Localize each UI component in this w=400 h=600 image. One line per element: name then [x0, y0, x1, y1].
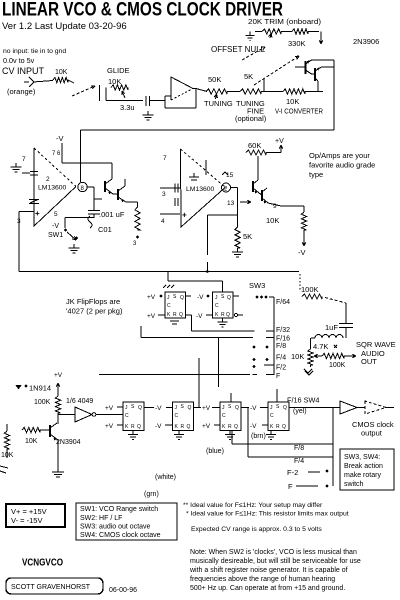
+V labels FF1 — [147, 294, 165, 320]
svg-text:(blue): (blue) — [206, 448, 224, 455]
wire inverter out to FF1 — [96, 414, 123, 416]
wire jack to resistor — [33, 80, 74, 83]
wire U3 output to node — [231, 188, 238, 216]
svg-text:C: C — [222, 413, 226, 419]
U3 pin 1 stub — [205, 160, 207, 175]
(grn) wire label — [144, 491, 159, 498]
wire emitter to ground — [57, 440, 59, 468]
svg-text:Q: Q — [137, 424, 141, 430]
ground below 10K pot — [304, 365, 313, 375]
SW3 stub F/2 — [264, 364, 274, 366]
U2 output pin circle — [78, 182, 87, 192]
svg-text:LINEAR VCO & CMOS CLOCK DRIVER: LINEAR VCO & CMOS CLOCK DRIVER — [2, 0, 283, 21]
resistor R7 330K — [281, 29, 319, 48]
svg-text:SW1: VCO Range switch: SW1: VCO Range switch — [80, 506, 158, 513]
ground below FF2 — [218, 318, 228, 327]
svg-text:SW1: SW1 — [48, 232, 63, 239]
wire Iabc bottom run — [81, 129, 335, 131]
svg-text:+: + — [182, 211, 187, 220]
wire Q6 emitter to 10K — [268, 203, 304, 212]
+V arrow feed — [54, 372, 63, 396]
CV INPUT label — [2, 66, 45, 76]
svg-text:13: 13 — [227, 200, 235, 207]
svg-text:330K: 330K — [288, 39, 306, 48]
dashed pointer from offset null to Q1 — [242, 47, 265, 60]
subtitle version text — [2, 21, 127, 32]
svg-text:VCNGVCO: VCNGVCO — [22, 557, 63, 569]
wire F/4 run — [248, 408, 325, 466]
svg-text:output: output — [361, 429, 383, 438]
svg-text:SW3: SW3 — [249, 281, 265, 290]
node F bottom label — [288, 482, 318, 491]
svg-text:20K TRIM (onboard): 20K TRIM (onboard) — [248, 17, 321, 26]
svg-text:10K: 10K — [291, 352, 304, 361]
svg-text:LM13600: LM13600 — [38, 185, 67, 192]
svg-text:500+ Hz up. Can operate at fro: 500+ Hz up. Can operate at from +15 and … — [190, 585, 345, 592]
svg-text:SW3: audio out octave: SW3: audio out octave — [80, 524, 151, 531]
+V labels U6a — [105, 405, 123, 430]
potentiometer R3 50K TUNING — [204, 75, 233, 108]
ground below U7b — [266, 431, 276, 440]
bottom note paragraph — [189, 549, 361, 592]
title text — [2, 0, 283, 21]
svg-text:+: + — [35, 209, 40, 218]
ground at U2 input — [11, 156, 27, 172]
ground below FF1 — [170, 321, 179, 324]
resistor R1 10K input — [53, 69, 68, 83]
wire Iabc drop to U2 output node — [80, 130, 82, 182]
svg-text:Break action: Break action — [344, 463, 383, 470]
wire U7b to SW4 — [289, 407, 333, 409]
(white) wire label — [155, 474, 176, 481]
SW3 contact dots — [256, 296, 268, 299]
svg-text:2N3906: 2N3906 — [353, 37, 379, 46]
FF1 output stubs — [186, 296, 192, 315]
resistor R12 100K — [301, 285, 322, 299]
U3 diode between inputs — [175, 198, 178, 206]
svg-text:Q: Q — [283, 405, 287, 411]
svg-text:-V: -V — [197, 294, 204, 301]
resistor R9 5K — [235, 215, 252, 248]
switch SW3 common bar — [269, 297, 274, 375]
svg-text:SW3, SW4:: SW3, SW4: — [344, 454, 380, 461]
svg-text:100K: 100K — [34, 399, 51, 406]
svg-text:4.7K: 4.7K — [313, 342, 328, 351]
svg-text:3: 3 — [162, 191, 166, 198]
svg-text:Q: Q — [282, 424, 286, 430]
OFFSET NULL label — [211, 45, 266, 54]
svg-text:OUT: OUT — [361, 357, 377, 366]
wire collector node to inverter — [58, 413, 75, 424]
svg-text:+V: +V — [147, 313, 156, 320]
svg-text:TUNING: TUNING — [204, 99, 233, 108]
op-amp U3 LM13600 — [181, 149, 226, 227]
note text: input range — [3, 48, 66, 65]
svg-text:type: type — [309, 170, 323, 179]
SW1 label and -V — [48, 223, 63, 239]
U3 designator text — [186, 186, 215, 193]
wire mark left margin lower — [0, 466, 8, 473]
flip-flop U7b 4027 — [268, 402, 289, 431]
svg-text:with a shift register noise ge: with a shift register noise generator. I… — [189, 567, 348, 574]
svg-text:-V: -V — [250, 423, 257, 430]
svg-text:F/32: F/32 — [276, 327, 290, 334]
note box SW3 SW4 rotary — [340, 449, 394, 490]
wire Q5 collector to 60K — [257, 156, 259, 180]
svg-text:-V: -V — [56, 134, 64, 143]
svg-text:+V: +V — [202, 405, 211, 412]
SW3 open contact dots — [253, 346, 269, 368]
svg-text:2: 2 — [46, 176, 50, 183]
VCNGVCO logo text — [22, 557, 63, 569]
node F/4 label — [276, 355, 286, 362]
svg-text:1N914: 1N914 — [29, 384, 51, 393]
svg-text:frequencies above the range of: frequencies above the range of human hea… — [190, 576, 335, 583]
node F-2 label — [287, 468, 320, 477]
svg-text:-V: -V — [155, 423, 162, 430]
flip-flop U7a 4027 — [220, 402, 241, 431]
note text op amps — [309, 151, 375, 179]
svg-text:Q: Q — [179, 312, 183, 318]
svg-text:100K: 100K — [329, 362, 346, 369]
svg-text:F/8: F/8 — [276, 343, 286, 350]
diode on U2 left edge — [29, 200, 39, 204]
resistor R5 10K V-I — [283, 89, 305, 106]
svg-text:C: C — [270, 413, 274, 419]
-V labels FF2 — [196, 294, 213, 320]
ground below U6b — [174, 431, 184, 440]
wire stub above U7a — [230, 393, 232, 402]
ground below 5K — [232, 248, 243, 257]
switch SW4 common bar — [332, 408, 334, 487]
svg-text:V-I CONVERTER: V-I CONVERTER — [275, 109, 323, 116]
resistor R15 100K out — [322, 353, 346, 369]
U2 designator text — [38, 176, 67, 192]
svg-text:make rotary: make rotary — [344, 472, 381, 479]
U2 non-inverting input wire — [17, 209, 58, 225]
V-I CONVERTER label — [275, 109, 323, 116]
svg-text:(white): (white) — [155, 474, 176, 481]
resistor R11 10K — [266, 212, 307, 230]
svg-text:+V: +V — [54, 372, 63, 379]
potentiometer R10 60K — [246, 141, 266, 155]
wire to 1uF cap — [345, 303, 347, 323]
svg-text:1uF: 1uF — [325, 323, 338, 332]
node F/2 label — [276, 365, 286, 372]
wire cap to 4.7K — [345, 328, 347, 339]
svg-text:F/4: F/4 — [294, 458, 304, 465]
svg-text:+V: +V — [275, 138, 284, 145]
svg-text:C01: C01 — [98, 225, 112, 234]
svg-text:5K: 5K — [243, 232, 252, 241]
ground below U7a — [225, 431, 235, 440]
svg-text:(yel): (yel) — [293, 408, 307, 415]
author box SCOTT GRAVENHORST — [6, 578, 103, 594]
svg-text:SW4: CMOS clock octave: SW4: CMOS clock octave — [80, 532, 161, 539]
svg-text:R: R — [221, 312, 225, 318]
svg-text:+V: +V — [105, 423, 114, 430]
svg-text:(brn): (brn) — [251, 433, 266, 440]
diode D1 1N914 legend — [16, 384, 52, 393]
wire 50K to 5K — [227, 91, 240, 93]
U2 pin labels 7 6 — [52, 151, 61, 157]
node wire down from + input — [18, 212, 20, 272]
svg-text:Op/Amps are your: Op/Amps are your — [309, 151, 370, 160]
wire stub above U7b — [276, 389, 278, 402]
svg-text:0.0v to 5v: 0.0v to 5v — [3, 56, 35, 65]
svg-text:10K: 10K — [266, 216, 279, 225]
SW4 open contacts — [326, 470, 329, 488]
wire Iabc right edge — [333, 60, 335, 130]
wire U6a to U6b — [144, 407, 173, 409]
wire SQW feed line — [19, 270, 299, 273]
svg-text:.001 uF: .001 uF — [99, 210, 125, 219]
resistor R13 4.7K loops — [311, 335, 343, 351]
-V labels U6b — [155, 405, 173, 430]
2N3906 designator — [353, 37, 379, 46]
svg-text:R: R — [228, 424, 232, 430]
svg-text:F/4: F/4 — [276, 355, 286, 362]
power legend box — [6, 504, 65, 527]
(yel) wire label — [293, 408, 307, 415]
svg-text:-V: -V — [196, 313, 203, 320]
ground at 20K trim — [246, 32, 263, 41]
svg-text:60K: 60K — [248, 141, 261, 150]
wire F/8 run — [232, 431, 325, 453]
svg-text:Expected CV range is approx. 0: Expected CV range is approx. 0.3 to 5 vo… — [191, 526, 322, 533]
wire U1 output — [196, 89, 207, 92]
transistor Q5 — [253, 180, 259, 194]
switch SW1 range — [64, 218, 94, 241]
svg-text:10K: 10K — [108, 77, 121, 86]
node F/64 label — [276, 299, 290, 306]
op-amp U1 input buffer — [171, 77, 193, 100]
wire clock feed A — [198, 358, 200, 408]
potentiometer R2 GLIDE 10K — [108, 77, 128, 98]
arrow to negative rail from 330K — [319, 32, 322, 45]
potentiometer R4 5K TUNING FINE — [235, 72, 267, 123]
svg-text:C: C — [167, 303, 171, 309]
svg-text:F: F — [276, 373, 280, 380]
flip-flop U6a 4027 — [123, 402, 144, 431]
svg-text:SW2: HF / LF: SW2: HF / LF — [80, 515, 122, 522]
svg-text:'4027 (2 per pkg): '4027 (2 per pkg) — [66, 307, 123, 316]
svg-text:06-00-96: 06-00-96 — [109, 587, 137, 594]
svg-text:+V: +V — [147, 294, 156, 301]
U3 output pin circle — [222, 183, 231, 193]
svg-text:F-2: F-2 — [287, 468, 298, 477]
svg-text:15: 15 — [226, 172, 234, 179]
squiggle 4027 mark above FF1 — [163, 285, 174, 288]
SQR WAVE AUDIO OUT label — [356, 340, 396, 366]
svg-text:+V: +V — [105, 405, 114, 412]
svg-text:10K: 10K — [25, 438, 38, 445]
op-amp U2 LM13600 — [34, 148, 76, 226]
svg-text:Note: When SW2 is 'clocks', VC: Note: When SW2 is 'clocks', VCO is less … — [190, 549, 357, 556]
node F/16 label — [276, 336, 290, 343]
svg-text:OFFSET NULL: OFFSET NULL — [211, 45, 266, 54]
node F label — [276, 373, 280, 380]
svg-text:SCOTT GRAVENHORST: SCOTT GRAVENHORST — [11, 584, 91, 591]
svg-text:7: 7 — [163, 155, 167, 162]
buffer U9 4049 dashed — [357, 401, 394, 414]
svg-text:(orange): (orange) — [7, 87, 36, 96]
U3 pin 7 label — [163, 155, 167, 162]
input jack J1 — [24, 77, 34, 87]
JK flipflop note text — [66, 297, 123, 316]
svg-text:Q: Q — [227, 295, 231, 301]
svg-text:switch: switch — [344, 481, 364, 488]
svg-text:Q: Q — [235, 405, 239, 411]
potentiometer R14 10K level — [291, 338, 313, 365]
dashed wiper to output cap — [325, 298, 346, 304]
node F/8 label — [276, 343, 286, 350]
svg-text:R: R — [173, 312, 177, 318]
SW3 stub F/16 — [266, 337, 274, 339]
svg-text:musically desireable, but will: musically desireable, but will still be … — [190, 558, 361, 565]
arrow to audio out — [344, 354, 356, 357]
svg-text:5: 5 — [54, 211, 58, 218]
svg-text:F: F — [288, 482, 293, 491]
svg-text:F/2: F/2 — [276, 365, 286, 372]
svg-text:Ver 1.2 Last Update 03-20-96: Ver 1.2 Last Update 03-20-96 — [2, 21, 127, 32]
trimmer R6 20K TRIM — [248, 17, 321, 38]
svg-text:F/8: F/8 — [294, 445, 304, 452]
svg-text:7 6: 7 6 — [52, 151, 61, 157]
pin 9 label — [273, 203, 277, 210]
SW4 stub F/4 — [325, 456, 333, 458]
svg-text:Q: Q — [226, 312, 230, 318]
inverter U5 1/6 4049 — [66, 398, 96, 422]
switch legend box — [76, 503, 177, 540]
node F/16 SW4 label — [287, 396, 319, 405]
arrow 10K to -V — [298, 230, 306, 257]
wire glide corner — [106, 88, 143, 101]
wire -V to buffer collector — [62, 163, 112, 179]
SW3 stub F — [266, 374, 274, 376]
svg-text:Q: Q — [234, 424, 238, 430]
wire step to FF clock tops — [168, 272, 223, 293]
ground below 3.3u cap — [143, 111, 154, 120]
(blue) wire label — [206, 448, 224, 455]
svg-text:no input: tie in to gnd: no input: tie in to gnd — [3, 48, 66, 55]
svg-text:3.3u: 3.3u — [120, 103, 135, 112]
svg-text:favorite audio grade: favorite audio grade — [309, 161, 375, 170]
svg-text:5K: 5K — [244, 72, 253, 81]
svg-text:SQR WAVE: SQR WAVE — [356, 340, 396, 349]
svg-text:F/16 SW4: F/16 SW4 — [287, 396, 319, 405]
switch SW2 contact bar — [99, 85, 101, 101]
SW4 stub F/8 — [325, 443, 333, 445]
svg-text:-V: -V — [52, 223, 59, 230]
svg-text:(optional): (optional) — [235, 114, 267, 123]
date text — [109, 587, 137, 594]
capacitor on U2 inverting input — [22, 172, 38, 176]
wire F run — [99, 374, 257, 376]
flip-flop U4a 4027 — [165, 292, 186, 318]
transistor Q6 — [259, 188, 268, 204]
capacitor C1 3.3u — [120, 96, 165, 112]
+V arrow at 60K — [266, 138, 284, 153]
CMOS clock output label — [352, 420, 394, 438]
footnote ideal values — [183, 502, 349, 518]
switch SW2 wiper dashed arrow — [72, 86, 95, 96]
wire output node to SQW line — [207, 215, 237, 272]
svg-text:V- = -15V: V- = -15V — [11, 516, 42, 525]
+V labels U7a — [202, 405, 220, 430]
node F/32 label — [276, 327, 290, 334]
capacitor C2 1uF — [325, 323, 353, 332]
FF2 output stubs — [233, 296, 243, 317]
svg-text:C: C — [125, 413, 129, 419]
wire Q2 emitter to rail — [322, 66, 335, 68]
resistor R18 10K to rail — [1, 424, 14, 459]
svg-text:-V: -V — [250, 405, 257, 412]
SW3 stub F/32 — [266, 330, 274, 332]
flip-flop U6b 4027 — [173, 402, 194, 431]
svg-text:V+ = +15V: V+ = +15V — [11, 507, 47, 516]
svg-text:GLIDE: GLIDE — [107, 66, 130, 75]
pot wiper arrow — [314, 354, 322, 357]
svg-text:R: R — [181, 424, 185, 430]
svg-text:Q: Q — [187, 424, 191, 430]
svg-text:R: R — [131, 424, 135, 430]
svg-text:Q: Q — [180, 295, 184, 301]
U3 internal cap symbol — [189, 173, 199, 180]
svg-text:C: C — [175, 413, 179, 419]
svg-text:(grn): (grn) — [144, 491, 159, 498]
wire 10K to Q2 — [305, 91, 323, 93]
transistor Q2 2N3906 — [312, 67, 322, 92]
(brn) wire label — [251, 433, 266, 440]
svg-text:50K: 50K — [208, 75, 221, 84]
svg-text:F/64: F/64 — [276, 299, 290, 306]
svg-text:F/16: F/16 — [276, 336, 290, 343]
wire U6b to U7a — [194, 407, 221, 409]
ground below U6a — [128, 431, 138, 440]
resistor R17 10K base — [22, 427, 50, 445]
svg-text:2N3904: 2N3904 — [56, 439, 81, 446]
wire U1 feedback — [165, 89, 196, 109]
svg-text:7: 7 — [22, 156, 26, 163]
wire Q1 emitter to rail — [312, 59, 335, 61]
wire F/32 run — [192, 315, 255, 331]
U3 non-inverting input wire — [160, 211, 187, 226]
svg-text:+V: +V — [202, 423, 211, 430]
U3 pin 15 label — [222, 172, 234, 179]
GLIDE label — [107, 66, 130, 75]
svg-text:100K: 100K — [301, 285, 319, 294]
capacitor C01 .001uF — [88, 199, 125, 234]
svg-text:** Ideal value for F≤1Hz: You: ** Ideal value for F≤1Hz: Your setup may… — [183, 502, 323, 509]
switch SW3 label — [249, 281, 265, 290]
ground at SW1 — [69, 244, 80, 253]
U3 inverting input wire — [160, 184, 180, 199]
svg-text:-V: -V — [298, 248, 306, 257]
expected CV range note — [191, 526, 322, 533]
svg-text:4: 4 — [161, 218, 165, 225]
(orange) wire label — [7, 87, 36, 96]
svg-text:C: C — [215, 303, 219, 309]
svg-text:R: R — [276, 424, 280, 430]
dotted riser to 100K — [299, 274, 301, 290]
svg-text:JK FlipFlops are: JK FlipFlops are — [66, 297, 120, 306]
svg-text:-V: -V — [155, 405, 162, 412]
ground below Q7 — [52, 468, 64, 477]
svg-text:* Ideal value for F≤1Hz: This: * Ideal value for F≤1Hz: This resistor l… — [186, 511, 349, 518]
svg-text:LM13600: LM13600 — [186, 186, 215, 193]
U3 pin 13 label and arrow — [227, 200, 251, 207]
